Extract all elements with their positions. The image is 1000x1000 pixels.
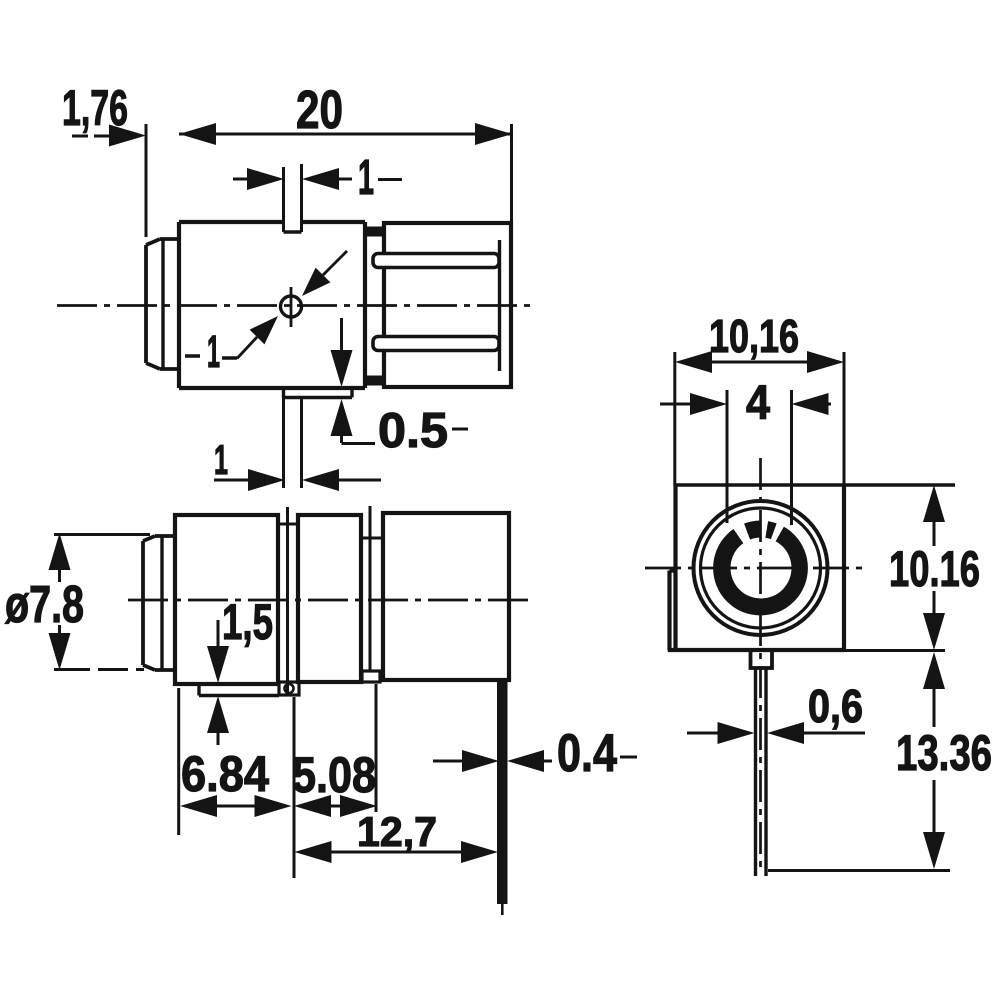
svg-text:1: 1 [358,151,374,205]
svg-text:1: 1 [207,326,220,377]
svg-text:0.5: 0.5 [378,404,448,458]
svg-text:20: 20 [296,80,343,140]
svg-text:ø7.8: ø7.8 [5,576,84,634]
svg-text:1,5: 1,5 [222,594,273,650]
svg-text:0,6: 0,6 [808,680,863,732]
svg-text:1,76: 1,76 [62,80,128,136]
svg-text:5.08: 5.08 [292,747,376,803]
svg-text:6.84: 6.84 [181,746,269,802]
svg-text:10,16: 10,16 [709,310,799,362]
svg-text:0.4: 0.4 [557,724,617,783]
svg-text:12,7: 12,7 [357,808,437,855]
svg-text:4: 4 [746,377,770,430]
svg-text:10.16: 10.16 [889,541,980,597]
svg-text:13.36: 13.36 [896,725,992,781]
svg-text:1: 1 [214,436,228,483]
